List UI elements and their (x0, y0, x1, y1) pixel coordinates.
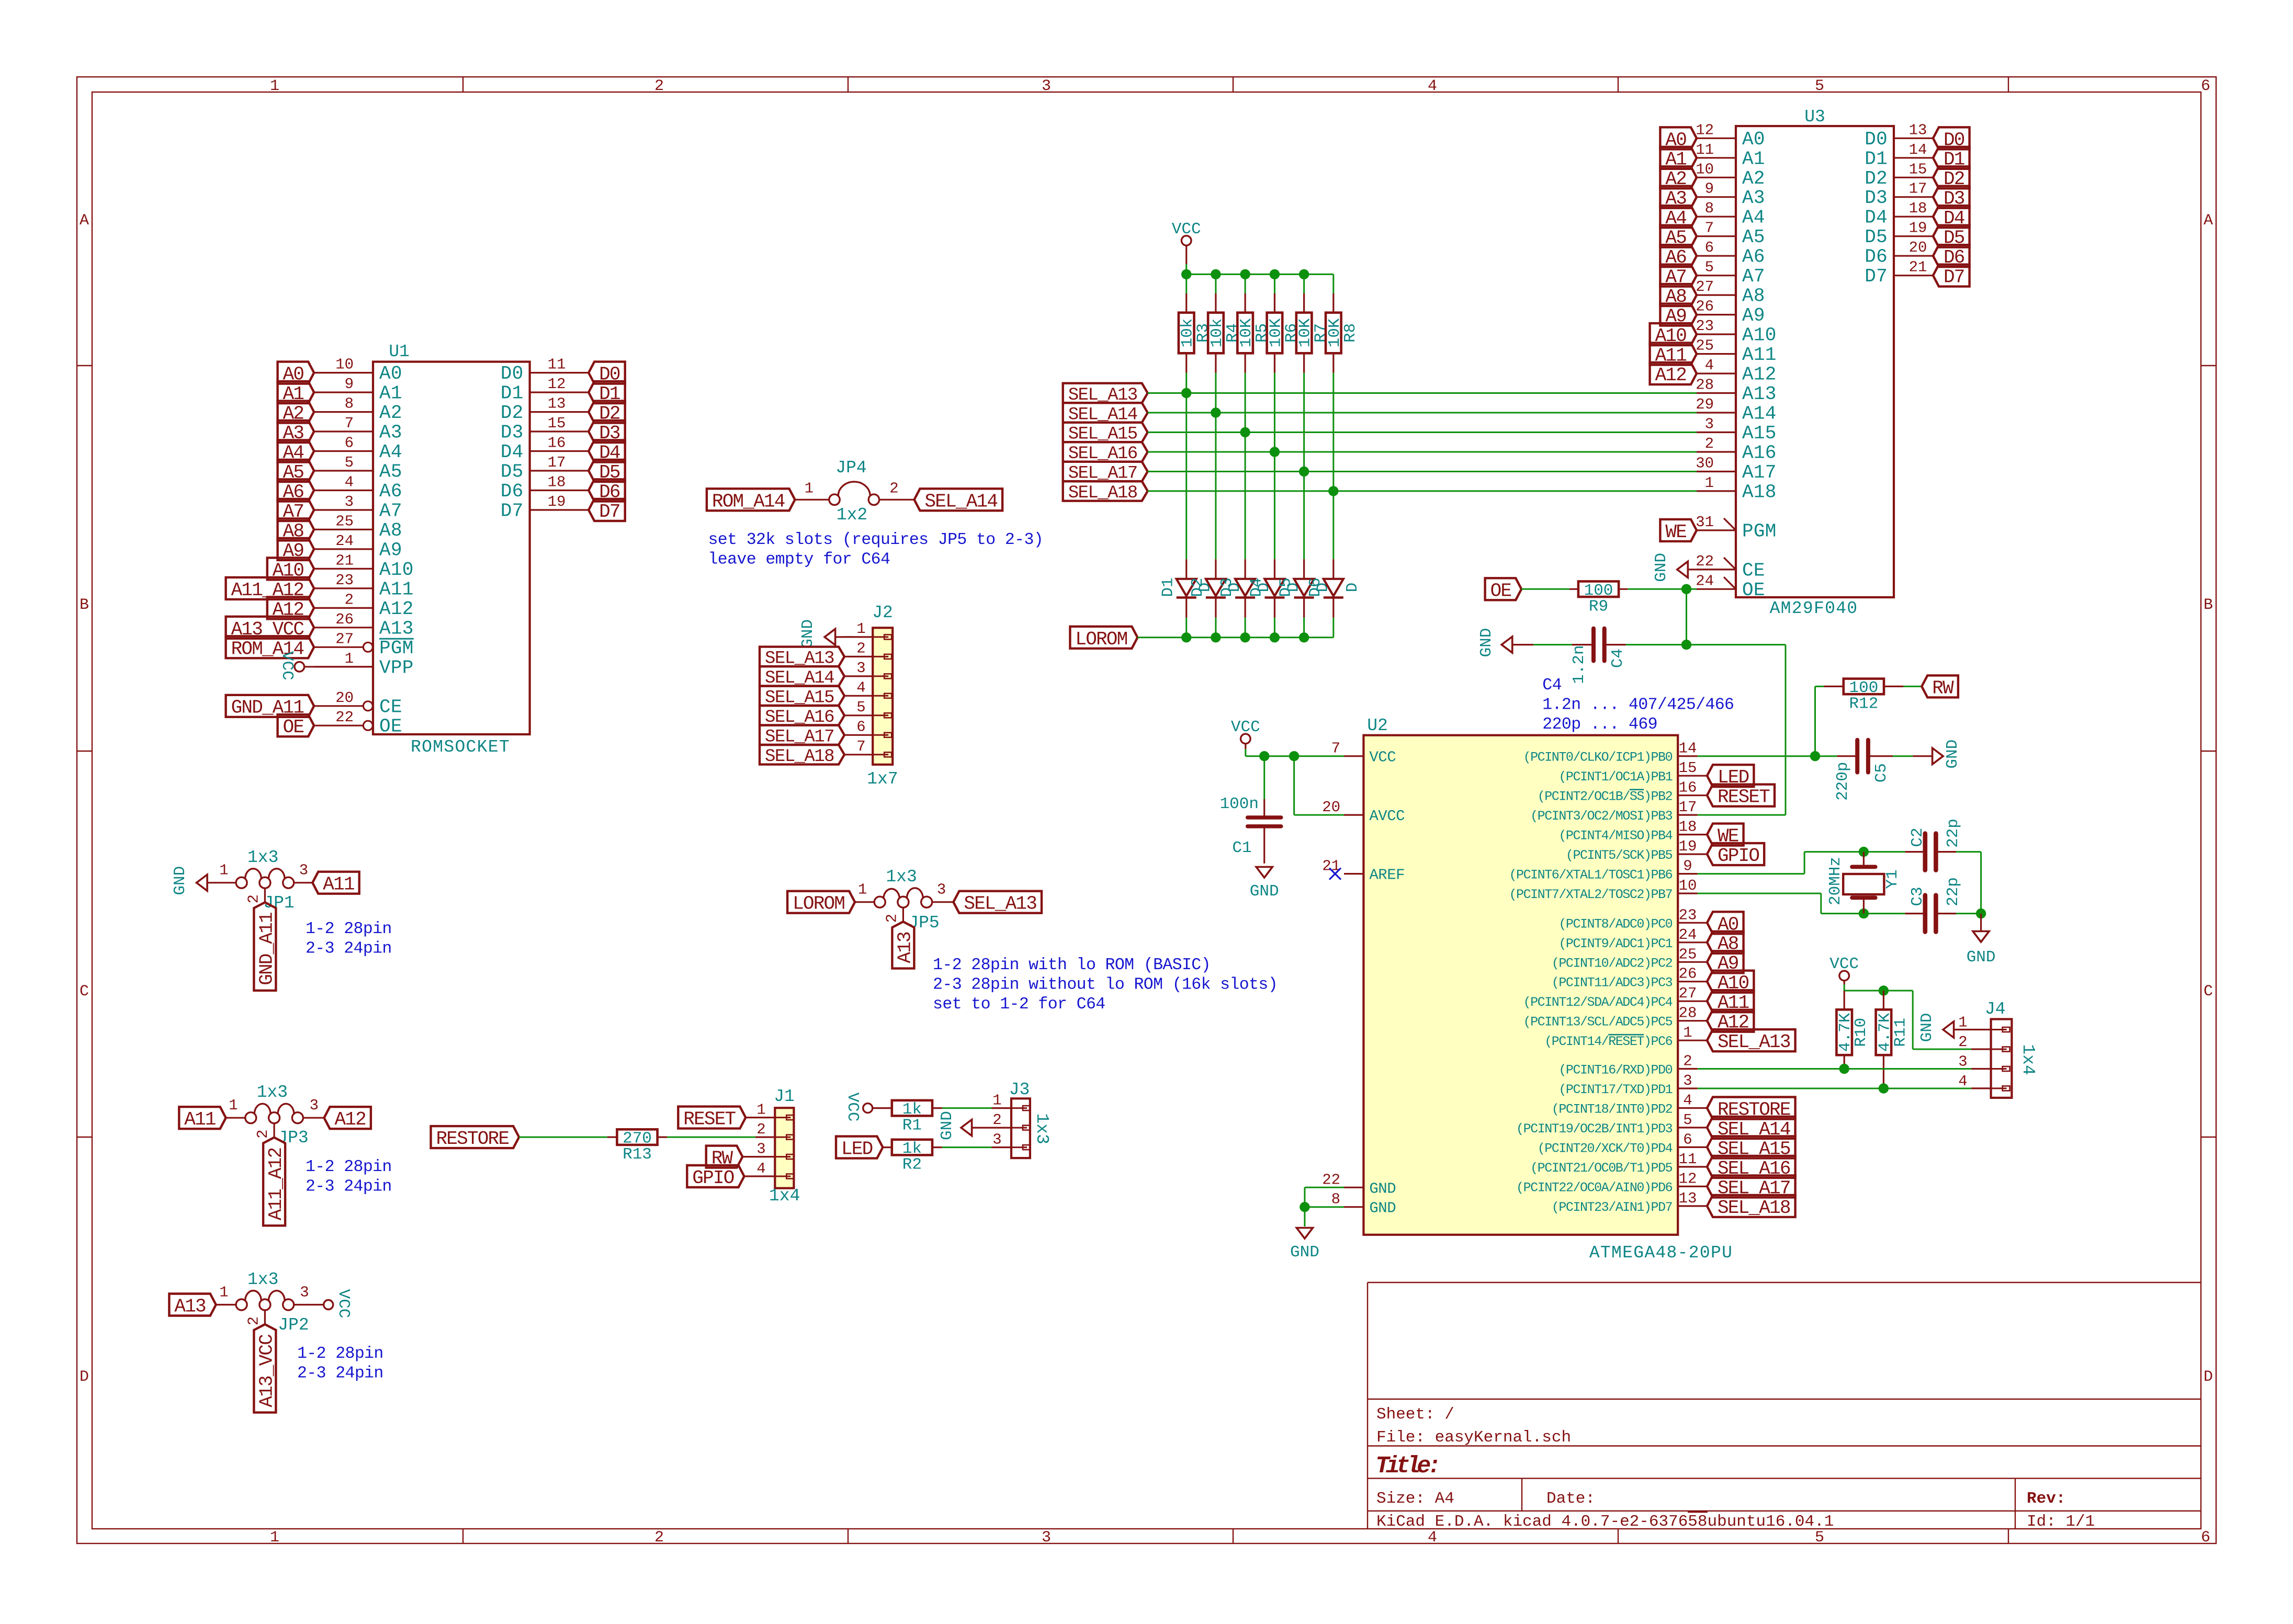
svg-text:A0: A0 (1742, 129, 1765, 150)
svg-text:C4: C4 (1542, 676, 1562, 695)
svg-text:1: 1 (219, 862, 228, 879)
net label SEL_A16 (bank) (1063, 442, 1148, 464)
net label A12 (JP3) (324, 1107, 371, 1130)
note JP1 line1 (306, 920, 392, 938)
net label LOROM (JP5) (787, 891, 855, 915)
svg-text:18: 18 (1679, 819, 1697, 836)
svg-text:GPIO: GPIO (1718, 845, 1759, 867)
power VCC (U1 VPP) (278, 651, 373, 680)
svg-text:1x3: 1x3 (1032, 1113, 1052, 1144)
resistor R8 (1326, 293, 1360, 373)
wire SEL_A15 row (1148, 431, 1697, 433)
IC U2 ATMEGA48-20PU (1322, 716, 1733, 1263)
net label SEL_A15 (bank) (1063, 423, 1148, 445)
svg-text:23: 23 (335, 572, 354, 589)
svg-text:4: 4 (1705, 357, 1714, 374)
resistor R6 (1267, 293, 1301, 373)
capacitor C2 (1905, 819, 1962, 870)
svg-text:9: 9 (1705, 180, 1714, 198)
svg-text:D0: D0 (501, 363, 524, 384)
svg-text:14: 14 (1909, 141, 1927, 158)
svg-text:2: 2 (654, 77, 664, 95)
svg-text:(PCINT12/SDA/ADC4)PC4: (PCINT12/SDA/ADC4)PC4 (1523, 995, 1673, 1010)
net label D5 (U1) (589, 460, 625, 483)
svg-text:3: 3 (1683, 1072, 1692, 1089)
svg-text:A2: A2 (1742, 168, 1765, 189)
svg-text:A1: A1 (379, 383, 402, 404)
svg-text:(PCINT14/RESET)PC6: (PCINT14/RESET)PC6 (1544, 1034, 1672, 1049)
wire SEL_A14 row (1148, 412, 1697, 414)
svg-text:1x3: 1x3 (247, 848, 278, 867)
svg-text:J2: J2 (872, 603, 893, 622)
svg-text:5: 5 (1683, 1111, 1692, 1129)
svg-text:A11: A11 (1742, 344, 1777, 366)
wire R5 to D3 (1245, 373, 1246, 560)
svg-text:9: 9 (345, 376, 354, 393)
svg-text:A8: A8 (1742, 286, 1765, 307)
svg-text:4: 4 (756, 1160, 765, 1177)
note JP5 line2 (933, 976, 1278, 994)
junction OE node (1681, 584, 1691, 594)
net label A3 (U1 pin) (278, 421, 314, 444)
net label SEL_A14 (JP4) (914, 489, 1003, 512)
junction VCC rail col 5 (1299, 269, 1309, 279)
svg-text:1: 1 (219, 1284, 228, 1301)
wire R7 to D5 (1303, 373, 1305, 560)
wire rail to R7 (1303, 274, 1305, 293)
svg-text:6: 6 (856, 718, 865, 735)
svg-text:2: 2 (254, 1129, 272, 1138)
svg-text:D3: D3 (1218, 577, 1236, 597)
net label A11 (JP1) (312, 872, 359, 895)
note JP1 line2 (306, 940, 392, 958)
wire OE node down (1686, 589, 1687, 644)
net label A11_A12 (U1 pin) (226, 577, 314, 601)
svg-text:A7: A7 (1742, 266, 1765, 287)
junction crystal GND (1976, 908, 1986, 918)
svg-text:OE: OE (379, 716, 402, 737)
net label A5 (U1 pin) (278, 460, 314, 483)
svg-text:(PCINT5/SCK)PB5: (PCINT5/SCK)PB5 (1566, 848, 1673, 863)
jumper JP2 1x3 (216, 1270, 324, 1335)
svg-text:RESTORE: RESTORE (436, 1128, 509, 1150)
net label A11 (U2) (1707, 990, 1754, 1014)
wire R12 riser (1815, 686, 1824, 756)
net label A11 (JP3) (179, 1107, 225, 1130)
note C4 line2 (1542, 696, 1734, 714)
svg-text:5: 5 (345, 454, 354, 471)
note JP5 line1 (933, 956, 1211, 974)
svg-text:1-2 28pin: 1-2 28pin (297, 1345, 383, 1363)
svg-text:GND: GND (171, 866, 189, 895)
svg-text:OE: OE (1742, 580, 1765, 601)
svg-text:CE: CE (379, 696, 402, 718)
svg-text:A13: A13 (379, 618, 414, 639)
svg-text:A12: A12 (379, 598, 414, 620)
junction SEL_A18 / R8 (1328, 486, 1338, 496)
svg-text:(PCINT8/ADC0)PC0: (PCINT8/ADC0)PC0 (1558, 916, 1672, 932)
wire crystal top rail (1804, 851, 1905, 853)
net label A0 (U2) (1707, 912, 1744, 935)
svg-text:A1: A1 (1742, 148, 1765, 169)
svg-text:28: 28 (1679, 1005, 1697, 1022)
junction R11 top (1879, 985, 1889, 995)
svg-text:VCC: VCC (1172, 220, 1201, 239)
wire PD1 row (1698, 1088, 1971, 1089)
svg-text:(PCINT21/OC0B/T1)PD5: (PCINT21/OC0B/T1)PD5 (1530, 1161, 1672, 1176)
wire SEL_A16 row (1148, 451, 1697, 453)
svg-text:(PCINT6/XTAL1/TOSC1)PB6: (PCINT6/XTAL1/TOSC1)PB6 (1509, 868, 1672, 883)
wire rail to R3 (1185, 274, 1187, 293)
diode D1 (1159, 559, 1215, 617)
svg-text:6: 6 (2201, 77, 2210, 95)
junction Y1 top (1859, 847, 1869, 857)
wire R4 to D2 (1215, 373, 1216, 560)
power GND (J2 pin1) (799, 619, 853, 649)
power VCC (pull-up rail) (1172, 220, 1201, 264)
svg-text:12: 12 (1679, 1170, 1697, 1187)
svg-text:1: 1 (805, 480, 814, 497)
note JP2 line1 (297, 1345, 383, 1363)
wire PB0 row (1698, 755, 1837, 757)
svg-text:A3: A3 (379, 422, 402, 444)
svg-text:D: D (80, 1368, 89, 1386)
junction Y1 bottom (1859, 908, 1869, 918)
net label A2 (U3) (1660, 166, 1697, 190)
svg-text:1x3: 1x3 (257, 1083, 288, 1102)
svg-text:11: 11 (1696, 141, 1714, 158)
junction SEL_A14 / R4 (1211, 407, 1221, 417)
svg-text:A11_A12: A11_A12 (265, 1148, 287, 1220)
net label SEL_A16 (J2) (760, 706, 844, 728)
jumper JP1 1x3 (219, 848, 312, 913)
wire LOROM row (1137, 637, 1333, 638)
svg-text:4: 4 (1428, 77, 1437, 95)
power GND (C1) (1250, 867, 1279, 901)
svg-text:A18: A18 (1742, 481, 1777, 503)
capacitor C4 (1570, 629, 1627, 684)
svg-text:Size: A4: Size: A4 (1376, 1490, 1454, 1508)
svg-text:JP3: JP3 (277, 1128, 308, 1148)
svg-text:2-3 24pin: 2-3 24pin (306, 1178, 392, 1196)
net label RESTORE (J1) (431, 1126, 519, 1150)
net label RW (R12) (1922, 675, 1958, 699)
net label A2 (U1 pin) (278, 401, 314, 425)
svg-text:2-3 24pin: 2-3 24pin (306, 940, 392, 958)
IC U1 ROMSOCKET (314, 342, 589, 757)
power GND (crystal) (1967, 914, 1996, 967)
note JP4 line1 (708, 531, 1044, 549)
junction VCC rail col 4 (1270, 269, 1280, 279)
wire C5 to GND (1893, 755, 1913, 757)
svg-text:17: 17 (1909, 180, 1927, 198)
svg-text:15: 15 (1909, 161, 1927, 178)
wire VCC rail J4 (1844, 984, 1971, 1049)
svg-text:A9: A9 (379, 539, 402, 561)
net label WE (U3 PGM) (1660, 519, 1697, 543)
svg-text:J4: J4 (1985, 1000, 2006, 1019)
diode D3 (1218, 559, 1273, 617)
svg-text:7: 7 (856, 738, 865, 755)
svg-text:10: 10 (1696, 161, 1714, 178)
svg-text:VCC: VCC (1231, 718, 1260, 736)
svg-text:2-3 28pin without lo ROM (16k: 2-3 28pin without lo ROM (16k slots) (933, 976, 1278, 994)
connector J4 1x4 (1958, 1000, 2038, 1098)
svg-text:D7: D7 (501, 501, 524, 522)
svg-text:R2: R2 (902, 1156, 922, 1174)
svg-text:21: 21 (335, 552, 354, 569)
svg-text:ROM_A14: ROM_A14 (712, 491, 785, 512)
junction VCC/AVCC (1289, 751, 1299, 761)
net label D7 (U1) (589, 499, 625, 523)
svg-text:6: 6 (1683, 1131, 1692, 1148)
net label SEL_A17 (J2) (760, 725, 844, 747)
svg-text:(PCINT11/ADC3)PC3: (PCINT11/ADC3)PC3 (1552, 975, 1673, 991)
svg-text:D4: D4 (1247, 577, 1266, 597)
net label A7 (U1 pin) (278, 499, 314, 523)
svg-text:OE: OE (1490, 580, 1511, 601)
svg-text:13: 13 (548, 395, 566, 413)
svg-text:A5: A5 (1742, 226, 1765, 248)
net label A6 (U1 pin) (278, 480, 314, 503)
svg-text:(PCINT19/OC2B/INT1)PD3: (PCINT19/OC2B/INT1)PD3 (1516, 1121, 1673, 1137)
IC U3 AM29F040 (1696, 107, 1933, 618)
net label LOROM (diodes) (1070, 627, 1137, 650)
net label A0 (U1 pin) (278, 362, 314, 385)
wire D5 to LOROM row (1303, 618, 1305, 638)
svg-text:GND_A11: GND_A11 (256, 913, 277, 985)
svg-text:A5: A5 (379, 461, 402, 483)
wire R8 to D6 (1332, 373, 1334, 560)
diode D6 (1306, 559, 1362, 617)
svg-text:R10: R10 (1852, 1018, 1870, 1047)
svg-text:3: 3 (756, 1141, 765, 1158)
svg-text:2: 2 (245, 894, 262, 903)
svg-text:Sheet: /: Sheet: / (1376, 1405, 1454, 1424)
svg-text:7: 7 (1331, 740, 1340, 757)
svg-text:D7: D7 (1944, 267, 1964, 288)
svg-text:1-2 28pin: 1-2 28pin (306, 1158, 392, 1176)
note JP3 line2 (306, 1178, 392, 1196)
svg-text:A16: A16 (1742, 442, 1777, 464)
svg-text:SEL_A13: SEL_A13 (964, 893, 1036, 915)
net label SEL_A14 (J2) (760, 666, 844, 688)
net label A9 (U2) (1707, 951, 1744, 974)
svg-text:D: D (2204, 1368, 2213, 1386)
svg-text:11: 11 (1679, 1151, 1697, 1168)
net label RW (J1) (706, 1146, 743, 1169)
svg-text:A10: A10 (1742, 325, 1777, 346)
svg-text:SEL_A14: SEL_A14 (925, 491, 998, 512)
svg-text:10: 10 (1679, 877, 1697, 894)
svg-text:18: 18 (548, 474, 566, 491)
net label A11_A12 (JP3) (263, 1138, 287, 1226)
net label A9 (U3) (1660, 304, 1697, 327)
capacitor C5 (1834, 740, 1893, 801)
svg-text:LOROM: LOROM (793, 893, 844, 915)
svg-text:PGM: PGM (379, 638, 414, 659)
power GND (U3 CE) (1652, 553, 1736, 582)
net label A13_VCC (JP2) (254, 1324, 277, 1413)
wire rail to R5 (1245, 274, 1246, 293)
svg-text:GPIO: GPIO (692, 1167, 733, 1189)
svg-text:4: 4 (1958, 1073, 1967, 1090)
svg-text:26: 26 (1696, 298, 1714, 315)
wire PD0 row (1698, 1068, 1971, 1070)
svg-text:17: 17 (1679, 799, 1697, 816)
power GND (J4 pin1) (1918, 1013, 1971, 1042)
svg-text:D: D (1343, 583, 1362, 593)
svg-text:11: 11 (548, 356, 566, 373)
svg-text:D7: D7 (599, 501, 620, 523)
junction LOROM row col 2 (1211, 632, 1221, 642)
svg-text:GND: GND (1477, 628, 1496, 657)
svg-text:4: 4 (856, 679, 865, 696)
svg-text:GND: GND (799, 619, 817, 649)
svg-text:D1: D1 (501, 383, 524, 404)
svg-text:7: 7 (1705, 220, 1714, 237)
net label ROM_A14 (JP4) (707, 489, 795, 512)
svg-text:1: 1 (1705, 474, 1714, 492)
svg-text:AVCC: AVCC (1369, 808, 1405, 825)
junction U2 GND (1300, 1202, 1309, 1212)
jumper JP4 1x2 (795, 458, 914, 525)
resistor R9 (1569, 582, 1628, 616)
net label A10 (U2) (1707, 971, 1754, 994)
junction SEL_A13 / R3 (1181, 388, 1191, 398)
svg-text:Y1: Y1 (1883, 869, 1902, 889)
svg-text:B: B (80, 596, 89, 614)
svg-text:20: 20 (1909, 239, 1927, 256)
svg-text:WE: WE (1665, 521, 1686, 543)
net label LED (U2) (1707, 765, 1754, 788)
net label SEL_A16 (U2) (1707, 1156, 1795, 1179)
svg-text:5: 5 (1705, 259, 1714, 276)
svg-text:GND: GND (1944, 740, 1962, 769)
svg-text:A0: A0 (379, 363, 402, 384)
svg-text:3: 3 (310, 1097, 319, 1114)
svg-text:(PCINT4/MISO)PB4: (PCINT4/MISO)PB4 (1558, 828, 1672, 844)
svg-text:12: 12 (548, 376, 566, 393)
svg-text:ATMEGA48-20PU: ATMEGA48-20PU (1589, 1243, 1733, 1263)
svg-text:RW: RW (1932, 677, 1954, 699)
wire GND to C4 (1533, 644, 1572, 645)
wire R6 to D4 (1274, 373, 1275, 560)
svg-text:LOROM: LOROM (1075, 629, 1127, 650)
diode D2 (1189, 559, 1244, 617)
svg-text:19: 19 (1679, 838, 1697, 855)
junction LOROM row col 3 (1240, 632, 1250, 642)
note C4 line3 (1542, 716, 1657, 734)
svg-text:(PCINT2/OC1B/SS)PB2: (PCINT2/OC1B/SS)PB2 (1538, 789, 1673, 804)
jumper JP3 1x3 (226, 1083, 324, 1148)
svg-text:SEL_A13: SEL_A13 (1718, 1031, 1790, 1053)
net label GND_A11 (JP1) (254, 902, 277, 991)
svg-text:24: 24 (335, 532, 354, 550)
svg-text:(PCINT0/CLKO/ICP1)PB0: (PCINT0/CLKO/ICP1)PB0 (1523, 750, 1673, 765)
svg-text:27: 27 (1679, 985, 1697, 1002)
wire R3 to D1 (1185, 373, 1187, 560)
svg-text:R1: R1 (902, 1117, 922, 1135)
resistor R12 (1824, 679, 1903, 713)
svg-text:1.2n ... 407/425/466: 1.2n ... 407/425/466 (1542, 696, 1734, 714)
svg-text:VCC: VCC (278, 651, 296, 680)
svg-text:A8: A8 (379, 520, 402, 541)
svg-text:(PCINT17/TXD)PD1: (PCINT17/TXD)PD1 (1558, 1082, 1672, 1097)
net label D1 (U1) (589, 381, 625, 405)
svg-text:OE: OE (283, 717, 304, 738)
svg-text:1: 1 (270, 1529, 279, 1547)
svg-text:16: 16 (1679, 779, 1697, 797)
svg-text:25: 25 (335, 513, 354, 530)
resistor R2 (883, 1140, 942, 1174)
svg-text:(PCINT18/INT0)PD2: (PCINT18/INT0)PD2 (1552, 1102, 1673, 1117)
wire rail to R8 (1332, 274, 1334, 293)
junction SEL_A16 / R6 (1270, 447, 1280, 457)
svg-text:A4: A4 (379, 441, 402, 463)
svg-text:VCC: VCC (843, 1093, 862, 1122)
svg-text:(PCINT23/AIN1)PD7: (PCINT23/AIN1)PD7 (1552, 1200, 1673, 1215)
svg-text:1: 1 (270, 77, 279, 95)
svg-text:3: 3 (1705, 416, 1714, 433)
svg-text:19: 19 (548, 493, 566, 510)
svg-text:R12: R12 (1849, 695, 1878, 713)
svg-text:(PCINT10/ADC2)PC2: (PCINT10/ADC2)PC2 (1552, 956, 1673, 971)
svg-text:24: 24 (1679, 926, 1697, 944)
resistor R3 (1179, 293, 1213, 373)
wire D3 to LOROM row (1245, 618, 1246, 638)
svg-text:R9: R9 (1589, 597, 1608, 616)
wire SEL_A13 row (1148, 392, 1697, 394)
net label A12 (U2) (1707, 1010, 1754, 1034)
svg-text:7: 7 (345, 415, 354, 432)
svg-text:R8: R8 (1341, 323, 1360, 343)
svg-text:R13: R13 (623, 1145, 652, 1164)
svg-text:8: 8 (1331, 1191, 1340, 1208)
net label D2 (U3) (1933, 166, 1970, 190)
svg-text:20: 20 (335, 689, 354, 707)
svg-text:AM29F040: AM29F040 (1770, 599, 1858, 618)
svg-text:D5: D5 (501, 461, 524, 483)
svg-text:C: C (2204, 983, 2213, 1001)
svg-text:(PCINT9/ADC1)PC1: (PCINT9/ADC1)PC1 (1558, 936, 1672, 951)
svg-text:D2: D2 (1189, 577, 1207, 597)
svg-text:D1: D1 (1159, 577, 1178, 597)
svg-text:12: 12 (1696, 121, 1714, 139)
svg-text:Rev:: Rev: (2027, 1490, 2065, 1508)
net label A12 (U3) (1650, 362, 1697, 386)
svg-text:D4: D4 (1865, 207, 1888, 229)
svg-text:VCC: VCC (334, 1289, 353, 1319)
svg-text:20MHz: 20MHz (1826, 857, 1845, 905)
svg-text:leave empty for C64: leave empty for C64 (708, 551, 890, 569)
svg-text:A12: A12 (335, 1109, 366, 1130)
wire PB3 riser (1698, 645, 1786, 815)
junction LOROM row col 5 (1299, 632, 1309, 642)
svg-text:3: 3 (345, 493, 354, 510)
wire R12 to RW (1903, 686, 1922, 687)
wire crystal bottom rail (1821, 913, 1905, 914)
svg-text:1: 1 (856, 620, 865, 638)
capacitor C1 (1220, 795, 1281, 864)
svg-text:16: 16 (548, 435, 566, 452)
svg-text:LED: LED (841, 1139, 873, 1160)
svg-text:27: 27 (1696, 278, 1714, 296)
svg-text:17: 17 (548, 454, 566, 471)
net label RESET (U2) (1707, 785, 1775, 808)
net label A12 (U1 pin) (267, 597, 314, 620)
svg-text:1x2: 1x2 (837, 505, 867, 525)
